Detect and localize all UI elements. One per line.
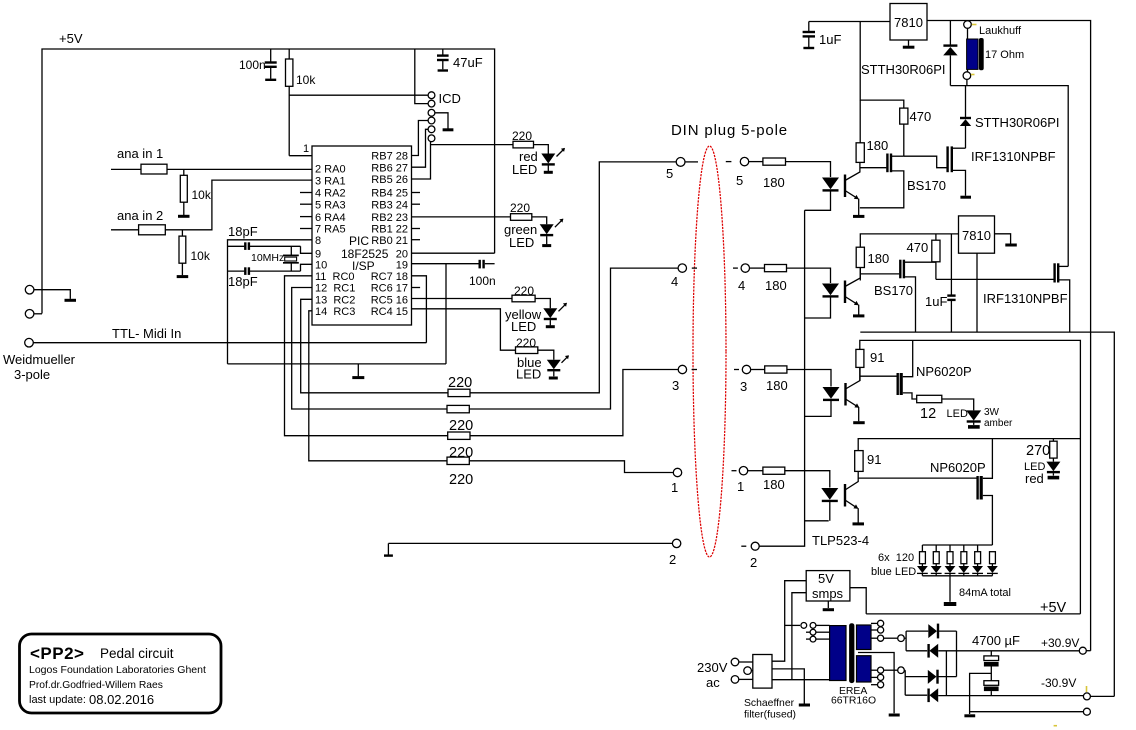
wire ICD pin6 to RB5 [412,142,431,179]
svg-text:230V: 230V [697,660,728,675]
svg-text:66TR16O: 66TR16O [831,696,876,707]
node +5V rail bottom [866,600,1080,616]
crystal X1 10MHz [251,246,299,271]
svg-text:Pedal circuit: Pedal circuit [100,646,174,661]
node DIN left pin4 [671,264,697,289]
svg-text:TTL- Midi In: TTL- Midi In [112,326,181,341]
diode bridge D8 [905,651,1083,702]
wire VSS pin8 frame [228,240,313,364]
diode bridge D5 [906,624,956,651]
svg-text:LED: LED [511,319,536,334]
svg-text:filter(fused): filter(fused) [744,710,796,721]
node DIN left pin2 [669,539,681,567]
node DIN right pin5 [726,157,749,188]
svg-text:4700 µF: 4700 µF [972,633,1020,648]
wire filter out2 to primary [772,593,830,680]
ground 7810 ch2 [1005,244,1017,247]
resistor 180 ch4 input [748,467,830,492]
opto U2a TLP523 LED ch1 [805,178,839,211]
capacitor C 18pF bottom [228,267,301,289]
ground main [352,364,364,378]
svg-text:10k: 10k [191,249,211,263]
resistor 91 ch3 [856,349,885,380]
transistor Q6 NP6020P ch4 [858,439,992,545]
capacitor 1uF ch2 [925,234,956,332]
node Weidmueller connector [3,285,76,382]
wire ground run under chip [228,363,447,365]
svg-text:7810: 7810 [962,228,991,243]
svg-text:8: 8 [315,235,321,247]
node +30.9V terminal [1041,636,1091,654]
filter Schaeffner [744,655,796,721]
LED red D1 [512,148,565,177]
svg-text:ana in 2: ana in 2 [117,208,163,223]
wire +5V top rail [42,49,495,314]
svg-text:47uF: 47uF [453,55,483,70]
ground LED array [944,576,1011,604]
wire RX pin18 [412,276,427,343]
ground opto ch4 [853,522,865,525]
svg-text:4 RA2: 4 RA2 [315,188,346,200]
svg-text:IRF1310NPBF: IRF1310NPBF [971,149,1056,164]
svg-text:13 RC2: 13 RC2 [315,295,355,307]
resistor 220 yellow LED [412,284,551,308]
svg-text:ac: ac [706,675,720,690]
svg-text:14 RC3: 14 RC3 [315,306,355,318]
opto U2a transistor ch1 [845,162,860,215]
yellow mark bottom [1054,725,1057,727]
svg-text:3W: 3W [984,407,1000,418]
svg-text:100n: 100n [239,58,266,72]
svg-text:DIN plug 5-pole: DIN plug 5-pole [671,122,788,139]
wire weidmueller +5V pin [34,313,42,315]
node -30.9V terminal [1041,676,1114,700]
wire ch4 box top rail [858,439,1080,451]
resistor 220 row4 RC3 to DIN1 [309,311,674,488]
svg-text:470: 470 [910,109,932,124]
wire OSC2 pin10 [301,264,313,271]
transformer T1 primary connections [785,623,830,642]
ground opto ch1 [853,215,864,218]
wire ch2 bottom rail to -30.9V bus [860,332,1114,696]
svg-text:TLP523-4: TLP523-4 [812,533,869,548]
resistor 91 ch4 [855,451,882,472]
resistor 180 ch1 input [749,158,831,190]
svg-text:LED: LED [509,235,534,250]
resistor 12 ch3 [917,395,974,422]
resistor 180 ch3 input [751,366,831,393]
resistor ana2 series [111,180,312,235]
svg-text:5 RA3: 5 RA3 [315,199,346,211]
diode bridge D7 [905,631,956,695]
label TLP523-4 [812,533,869,548]
svg-text:LED: LED [512,162,537,177]
wire DIN2 to ground stub [384,543,672,555]
svg-text:LED: LED [947,408,968,420]
opto U2d transistor ch4 [845,471,858,522]
wire ICD pin4 to RB7 [412,121,429,156]
resistor 220 row3 RC0 to DIN3 [285,276,679,461]
opto U2c TLP523 LED ch3 [805,387,840,416]
ground weidmueller [65,299,77,302]
wire ICD pin2 to +5V [415,49,428,104]
svg-text:180: 180 [763,477,785,492]
resistor 180 ch2 [856,247,889,280]
wire TTL-Midi In [33,326,426,343]
svg-text:10: 10 [315,260,327,272]
svg-text:180: 180 [765,278,787,293]
wire DIN2 return bus [759,210,829,546]
wire 7810 output rail [927,21,1091,651]
wire ch3 box top rail [860,340,1081,614]
svg-text:180: 180 [766,378,788,393]
svg-text:RB4 25: RB4 25 [371,188,408,200]
regulator 7810 ch1 [890,4,927,46]
node 230V ac input [697,658,753,690]
svg-text:LED: LED [516,367,541,382]
svg-text:1uF: 1uF [925,294,947,309]
transistor Q4 IRF1310NPBF ch2 [983,263,1070,332]
opto U2b TLP523 LED ch2 [805,284,839,319]
svg-text:STTH30R06PI: STTH30R06PI [861,62,946,77]
wire smps output to +5V rail [850,588,866,614]
node DIN right pin2 [741,542,759,570]
svg-text:Weidmueller: Weidmueller [3,352,76,367]
svg-text:RB1 22: RB1 22 [371,224,408,236]
wire 7810 ch2 bottom pin [976,253,978,332]
svg-text:12 RC1: 12 RC1 [315,283,355,295]
svg-text:smps: smps [812,586,844,601]
svg-text:17 Ohm: 17 Ohm [985,49,1024,61]
svg-text:1uF: 1uF [819,32,841,47]
resistor 470 ch2 [907,234,941,280]
svg-text:Schaeffner: Schaeffner [744,698,795,709]
capacitor 100n top-left [239,49,277,80]
svg-text:PIC: PIC [349,234,369,248]
capacitor 4700uF pair [972,633,1020,696]
svg-text:10k: 10k [296,73,316,87]
svg-text:5: 5 [666,166,673,181]
diode STTH30R06PI flyback ch1 [861,21,958,86]
regulator 7810 ch2 [959,216,1011,253]
transistor Q1 BS170 ch1 [860,154,946,208]
resistor 220 red LED [431,129,549,154]
resistor 220 blue LED [412,309,554,360]
svg-text:RB0 21: RB0 21 [371,235,408,247]
svg-text:2: 2 [669,552,676,567]
svg-text:4: 4 [738,278,745,293]
svg-text:1: 1 [671,480,678,495]
resistor 10k pullup MCLR [286,49,317,156]
opto U2d TLP523 LED ch4 [821,488,838,521]
svg-text:<PP2>: <PP2> [30,644,85,663]
wire VSS to ground [445,264,447,364]
ground caps midpoint [964,714,975,717]
LED blue D4 [516,355,569,382]
node ICD header [428,91,461,142]
pin labels right [371,151,408,318]
resistor 270 red led ch4 [1026,439,1057,462]
LED yellow D3 [505,303,567,334]
diode STTH30R06PI series ch1 [960,86,1060,149]
svg-text:RB2 23: RB2 23 [371,212,408,224]
capacitor C 18pF top [228,224,301,250]
svg-text:08.02.2016: 08.02.2016 [89,692,154,707]
node DIN left pin5 [666,158,698,182]
svg-text:3: 3 [740,379,747,394]
resistor 10k ana1 [180,169,212,215]
svg-text:RC7 18: RC7 18 [371,271,408,283]
wire BS170 drain to IRF gate [904,156,947,168]
svg-text:6 RA4: 6 RA4 [315,212,346,224]
ground filter [799,704,810,707]
wire VDD pin20 [412,252,495,254]
svg-text:220: 220 [510,201,530,215]
wire ch1 block feed [860,22,904,109]
ground IRF ch1 [960,196,971,199]
svg-text:1: 1 [737,479,744,494]
resistor 180 ch2 input [750,265,831,294]
wire ch2 IRF gate [936,278,1054,280]
node DIN left pin1 [671,468,682,495]
node 0V terminal [970,708,1091,715]
transistor Q5 NP6020P ch3 [860,340,972,399]
svg-text:RC6 17: RC6 17 [371,283,408,295]
LED amber 3W ch3 [947,407,1014,429]
capacitor 47uF [437,49,483,71]
svg-text:100n: 100n [469,274,496,288]
svg-text:last update:: last update: [29,694,86,706]
ground smps [823,608,834,611]
svg-text:Prof.dr.Godfried-Willem Raes: Prof.dr.Godfried-Willem Raes [29,680,163,691]
node DIN right pin3 [734,365,751,394]
capacitor 1uF ch1 [803,22,842,49]
svg-text:470: 470 [907,240,929,255]
wire ICD pin1 to 10k [289,94,428,96]
svg-text:2 RA0: 2 RA0 [315,164,346,176]
wire filter earth [772,669,804,704]
svg-text:3: 3 [672,378,679,393]
opto U2b transistor ch2 [845,268,860,315]
svg-text:RC5 16: RC5 16 [371,295,408,307]
wire ICD pin5 to RB6 [412,129,429,167]
svg-text:180: 180 [868,251,890,266]
IC U1 PIC18F2525 [312,146,412,325]
svg-text:NP6020P: NP6020P [930,460,986,475]
svg-text:+30.9V: +30.9V [1041,636,1079,650]
wire ICD pin3 to ground [435,113,448,129]
svg-text:180: 180 [867,138,889,153]
wire ch1 top rail [809,21,890,23]
svg-text:91: 91 [870,350,884,365]
svg-text:+5V: +5V [59,31,83,46]
capacitor 100n VSS pin19 [412,260,496,288]
svg-text:18pF: 18pF [228,224,258,239]
wire weidmueller gnd pin [34,290,70,299]
svg-text:IRF1310NPBF: IRF1310NPBF [983,291,1068,306]
resistor ana1 series [111,164,312,174]
connector DIN plug 5-pole [671,122,788,557]
wire OSC1 pin9 [301,246,313,253]
svg-text:2: 2 [750,555,757,570]
svg-text:4: 4 [671,274,678,289]
pin stubs unconnected [300,193,420,288]
svg-text:RC4 15: RC4 15 [371,306,408,318]
ground 7810 ch1 [903,46,915,49]
resistor 470 ch1 [900,108,932,156]
svg-text:19: 19 [396,260,408,272]
LED red panel ch4 [1024,461,1060,486]
svg-text:BS170: BS170 [874,283,913,298]
svg-text:ana in 1: ana in 1 [117,146,163,161]
svg-text:BS170: BS170 [907,178,946,193]
transformer secondary taps [871,620,906,688]
svg-text:RB7 28: RB7 28 [371,151,408,163]
diode bridge D6 [906,644,1079,658]
node DIN left pin3 [672,365,697,393]
inductor Laukhuff coil 17 Ohm [963,21,1024,80]
transformer T1 EREA 66TR16O [830,623,876,706]
svg-text:NP6020P: NP6020P [916,364,972,379]
wire coil bottom node [950,79,1068,266]
node ana in 2 [117,208,163,223]
pin labels left [315,164,355,318]
svg-text:84mA total: 84mA total [959,587,1011,599]
ground ICD [443,128,454,131]
resistor 10k ana2 [179,230,211,275]
resistor 220 green LED [412,201,547,224]
svg-text:91: 91 [867,452,881,467]
svg-text:ICD: ICD [439,91,461,106]
opto U2c transistor ch3 [846,367,861,421]
wire filter out1 to smps [772,581,806,662]
svg-text:blue LED: blue LED [871,566,916,578]
ground ana2 [177,275,189,278]
ground ana1 [178,215,190,218]
svg-text:STTH30R06PI: STTH30R06PI [975,115,1060,130]
svg-text:amber: amber [984,418,1013,429]
node +5V label top left [59,31,83,46]
svg-text:7 RA5: 7 RA5 [315,224,346,236]
svg-text:RB6 27: RB6 27 [371,162,408,174]
node ana in 1 [117,146,163,161]
svg-text:180: 180 [763,175,785,190]
node DIN right pin4 [733,264,750,293]
svg-text:220: 220 [449,472,473,488]
transistor Q2 IRF1310NPBF ch1 [948,146,1056,195]
svg-text:Logos Foundation Laboratories: Logos Foundation Laboratories Ghent [29,664,206,676]
transistor Q3 BS170 ch2 [860,260,936,332]
svg-text:3-pole: 3-pole [14,367,50,382]
svg-text:11 RC0: 11 RC0 [315,271,355,283]
svg-text:1: 1 [303,143,309,155]
svg-text:3 RA1: 3 RA1 [315,175,346,187]
svg-text:RB3 24: RB3 24 [371,199,408,211]
ground center tap [889,714,900,717]
svg-text:RB5 26: RB5 26 [371,174,408,186]
wire center tap to ground [858,653,894,714]
svg-text:6x 120: 6x 120 [878,552,914,564]
wire MCLR pin1 [289,143,312,156]
svg-text:-30.9V: -30.9V [1041,676,1076,690]
svg-text:red: red [1025,471,1044,486]
wire caps midpoint to ground [970,673,992,714]
svg-text:Laukhuff: Laukhuff [979,25,1022,37]
LED array 6x 120 blue [871,545,998,578]
title box PP2 [20,634,222,713]
ground opto ch3 [853,421,865,424]
LED green D2 [504,219,563,250]
resistor 220 row2 RC1 to DIN4 [292,268,678,434]
svg-text:10k: 10k [192,188,212,202]
svg-text:10MHz: 10MHz [251,252,284,264]
node DIN right pin1 [732,467,748,495]
svg-text:270: 270 [1026,443,1050,459]
ground opto ch2 [853,314,864,317]
svg-text:18pF: 18pF [228,274,258,289]
svg-text:5: 5 [736,173,743,188]
svg-text:12: 12 [920,406,936,422]
wire ch2 rail [860,234,958,247]
resistor 180 ch1 [856,100,888,162]
svg-text:5V: 5V [818,571,834,586]
psu 5V smps [806,571,850,608]
svg-text:7810: 7810 [894,15,923,30]
resistor 220 row1 RC2 to DIN5 [301,162,676,397]
